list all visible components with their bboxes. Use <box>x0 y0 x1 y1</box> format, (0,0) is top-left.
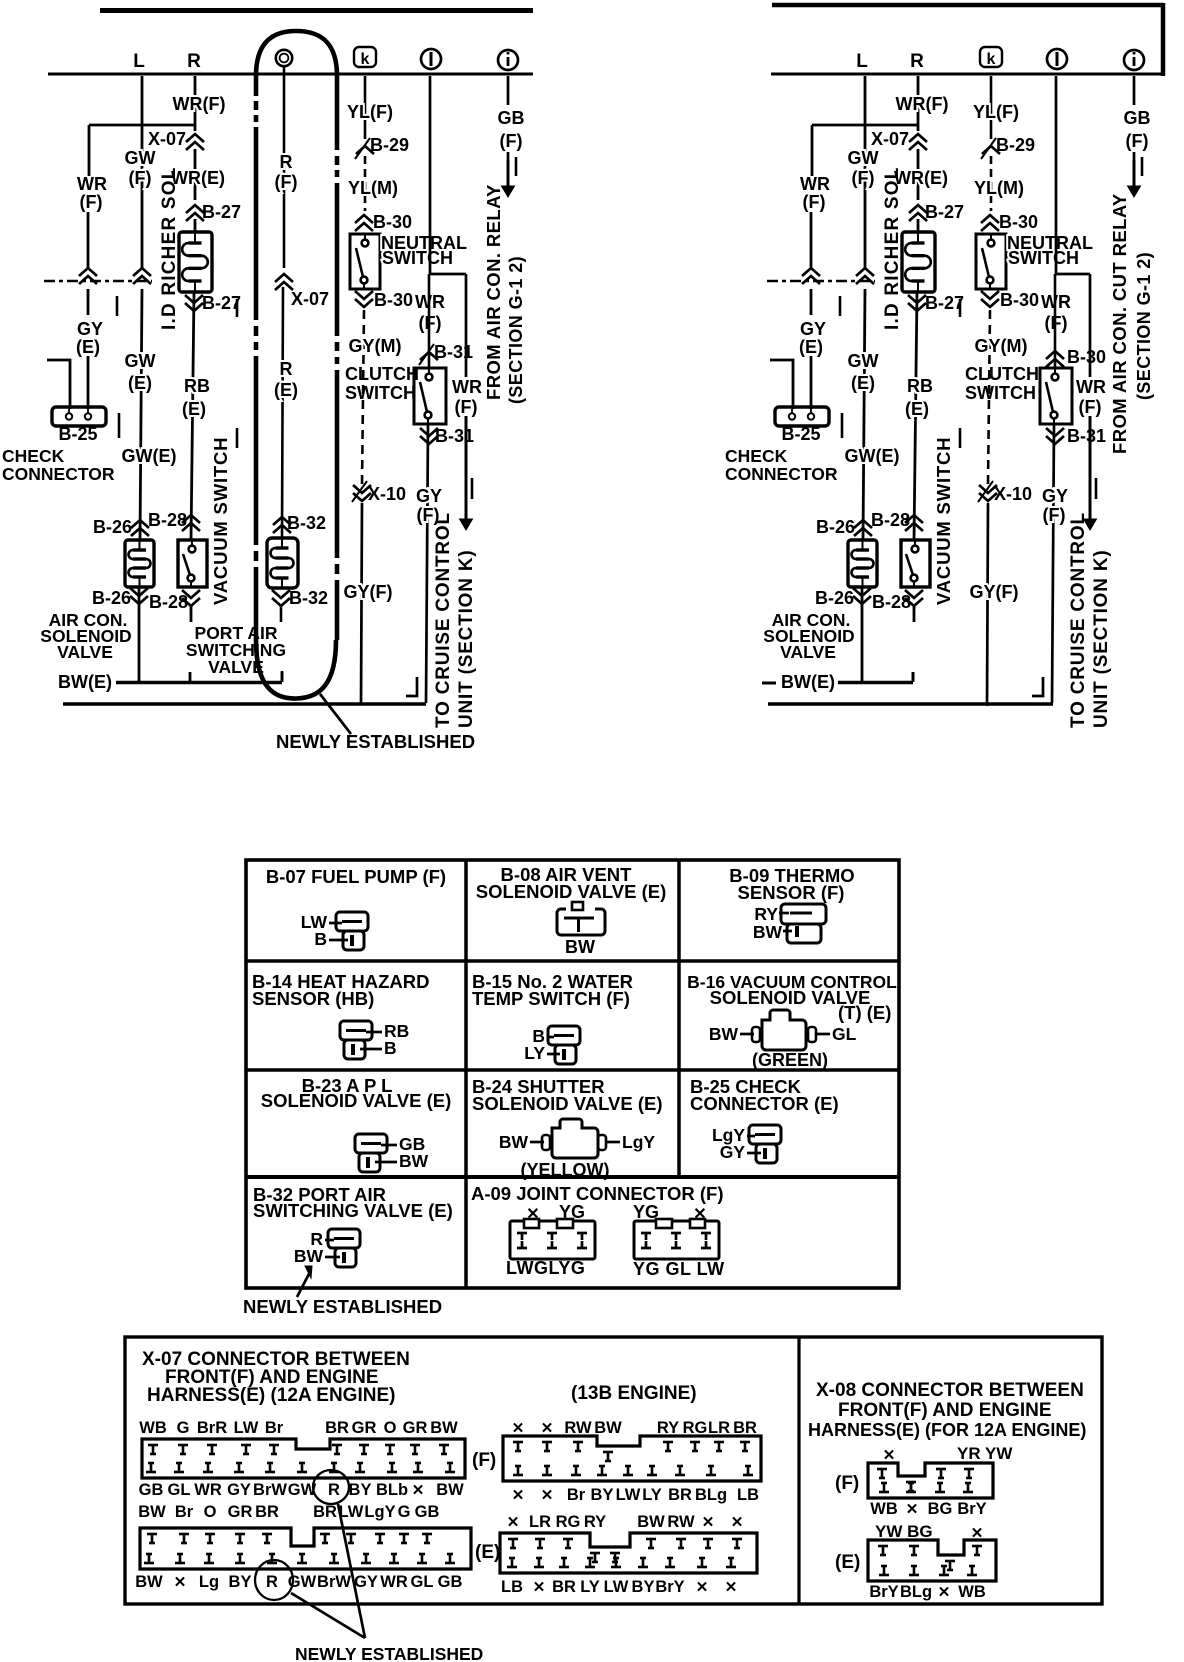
wire k dashed YL(M) (right) <box>990 156 993 211</box>
svg-text:(SECTION G-1 2): (SECTION G-1 2) <box>1134 252 1154 400</box>
svg-text:GY: GY <box>720 1142 746 1162</box>
wire l column bottom (left) <box>426 424 428 703</box>
wire l column to clutch (left) <box>428 274 431 368</box>
svg-text:(E): (E) <box>799 337 823 357</box>
wire L column bottom (right) <box>861 587 864 681</box>
svg-text:BLg: BLg <box>900 1583 932 1601</box>
svg-text:RG: RG <box>556 1513 581 1531</box>
svg-text:FROM AIR CON. RELAY: FROM AIR CON. RELAY <box>483 184 504 400</box>
svg-text:GY: GY <box>416 486 442 506</box>
svg-text:WB: WB <box>870 1500 898 1518</box>
svg-text:LW: LW <box>234 1419 259 1437</box>
connector chevron B-30 above neutral switch (right) <box>981 215 999 223</box>
svg-text:(F): (F) <box>80 192 103 212</box>
svg-text:LgY: LgY <box>364 1503 395 1521</box>
svg-text:GY(M): GY(M) <box>349 336 402 356</box>
svg-text:FRONT(F) AND ENGINE: FRONT(F) AND ENGINE <box>838 1400 1052 1421</box>
connector icon B-08 <box>557 909 605 935</box>
svg-text:SENSOR (F): SENSOR (F) <box>738 882 845 903</box>
connector chevron X-10 (right) <box>979 485 997 493</box>
pointer arrow to B-32 icon <box>297 1270 311 1297</box>
node k boxed (right) <box>980 47 1002 67</box>
harness tick mid (right) <box>959 299 962 317</box>
arrow to cruise control (left) <box>465 416 468 522</box>
svg-text:BrY: BrY <box>655 1578 684 1596</box>
connector chevron B-26 above solenoid (left) <box>131 520 149 528</box>
branch to WR wire (right) <box>1056 273 1090 276</box>
svg-text:(F): (F) <box>835 1473 859 1494</box>
connector chevron B-30 above neutral switch (left) <box>355 215 373 223</box>
label BW(E) (right) <box>762 682 776 685</box>
svg-text:✕: ✕ <box>533 1579 546 1596</box>
svg-text:B-30: B-30 <box>373 212 412 232</box>
wire WR branch down (right) <box>1089 274 1092 377</box>
svg-text:GY: GY <box>1042 486 1068 506</box>
connector chevron B-31 below clutch (left) <box>420 428 438 436</box>
wire WR column lower (left) <box>87 289 90 315</box>
svg-text:BG: BG <box>928 1500 953 1518</box>
wire k column upper (left) <box>364 76 367 139</box>
svg-text:LY: LY <box>524 1043 545 1063</box>
svg-text:LB: LB <box>501 1578 523 1596</box>
svg-text:GY: GY <box>800 319 826 339</box>
svg-text:RY: RY <box>657 1419 679 1437</box>
check connector left lead (left) <box>47 360 70 409</box>
svg-text:LB: LB <box>737 1486 759 1504</box>
wire l column bottom (right) <box>1052 424 1054 703</box>
svg-text:(GREEN): (GREEN) <box>752 1050 828 1070</box>
connector chevron B-32 below valve <box>272 590 290 598</box>
svg-text:BR: BR <box>325 1419 349 1437</box>
svg-text:(F): (F) <box>129 168 152 188</box>
svg-text:WR(F): WR(F) <box>896 94 949 114</box>
connector chevron on WR wire at cut (left) <box>79 268 97 276</box>
svg-text:YR YW: YR YW <box>957 1444 1013 1463</box>
svg-text:X-07: X-07 <box>291 289 329 309</box>
svg-text:Lg: Lg <box>199 1573 219 1591</box>
svg-text:GB: GB <box>415 1503 440 1521</box>
svg-text:GW: GW <box>125 351 156 371</box>
svg-text:B-30: B-30 <box>999 212 1038 232</box>
svg-text:NEWLY ESTABLISHED: NEWLY ESTABLISHED <box>276 731 475 752</box>
svg-text:BW: BW <box>709 1024 739 1044</box>
connector chevron B-29 (left) <box>356 146 374 154</box>
svg-text:B-27: B-27 <box>925 293 964 313</box>
svg-text:L: L <box>133 51 145 72</box>
svg-text:UNIT (SECTION K): UNIT (SECTION K) <box>1091 549 1112 728</box>
svg-text:GY: GY <box>77 319 103 339</box>
wire R column (left) <box>194 149 197 200</box>
svg-text:BW(E): BW(E) <box>58 672 112 692</box>
svg-text:LY: LY <box>642 1486 662 1504</box>
svg-text:RW: RW <box>667 1513 695 1531</box>
svg-text:Br: Br <box>567 1486 586 1504</box>
svg-text:TEMP SWITCH (F): TEMP SWITCH (F) <box>472 988 630 1009</box>
svg-text:BY: BY <box>229 1573 252 1591</box>
svg-text:B-07 FUEL PUMP (F): B-07 FUEL PUMP (F) <box>266 866 446 887</box>
svg-text:YL(F): YL(F) <box>347 102 393 122</box>
wire L column upper (right) <box>864 76 867 270</box>
svg-text:RG: RG <box>683 1419 708 1437</box>
svg-text:LR: LR <box>708 1419 730 1437</box>
svg-text:X-07: X-07 <box>871 129 909 149</box>
svg-text:BW: BW <box>499 1132 529 1152</box>
wire L column upper (left) <box>141 76 144 270</box>
X-07 13B (F) connector body <box>503 1436 761 1481</box>
newly established circles on R pins <box>313 1470 349 1504</box>
svg-text:VALVE: VALVE <box>780 642 836 662</box>
svg-text:CHECK: CHECK <box>725 446 788 466</box>
svg-text:BLg: BLg <box>695 1486 727 1504</box>
connector chevron X-07 on e wire <box>275 274 293 282</box>
wire WR branch down (left) <box>465 274 468 377</box>
svg-text:BW: BW <box>430 1419 458 1437</box>
svg-text:BW: BW <box>637 1513 665 1531</box>
X-07 12A (F) connector body <box>142 1439 465 1478</box>
svg-text:WR(F): WR(F) <box>173 94 226 114</box>
svg-text:B-30: B-30 <box>1000 290 1039 310</box>
svg-text:WR: WR <box>1076 377 1106 397</box>
svg-text:BW: BW <box>294 1246 324 1266</box>
svg-text:(F): (F) <box>500 131 523 151</box>
neutral switch box (right) <box>976 234 1006 289</box>
svg-text:FROM AIR CON. CUT RELAY: FROM AIR CON. CUT RELAY <box>1109 193 1130 454</box>
harness tick near GB arrow (left) <box>515 157 518 176</box>
svg-text:BY: BY <box>349 1481 372 1499</box>
svg-text:SWITCH: SWITCH <box>382 248 453 268</box>
connector chevron B-30 above clutch (right) <box>1046 351 1064 359</box>
X-08 (F) connector body <box>868 1463 993 1498</box>
svg-text:(E): (E) <box>905 399 929 419</box>
svg-text:Br: Br <box>175 1503 194 1521</box>
svg-text:SOLENOID VALVE (E): SOLENOID VALVE (E) <box>472 1093 663 1114</box>
svg-text:(E): (E) <box>835 1552 860 1573</box>
svg-text:B-26: B-26 <box>93 517 132 537</box>
bottom bus line (right) <box>768 702 1053 706</box>
svg-text:HARNESS(E) (12A ENGINE): HARNESS(E) (12A ENGINE) <box>147 1385 395 1406</box>
component table border <box>246 860 899 1288</box>
arrow to cruise control (right) <box>1089 416 1092 522</box>
svg-text:YG GL LW: YG GL LW <box>633 1259 725 1279</box>
connector chevron B-26 below solenoid (right) <box>853 588 871 596</box>
svg-text:B-28: B-28 <box>148 510 187 530</box>
wire WR column mid (left) <box>87 212 90 270</box>
svg-text:BR: BR <box>733 1419 757 1437</box>
svg-text:SWITCHING VALVE (E): SWITCHING VALVE (E) <box>253 1200 453 1221</box>
svg-text:CHECK: CHECK <box>2 446 65 466</box>
wire k GY(F) solid (left) <box>361 503 362 703</box>
svg-text:WR: WR <box>194 1481 222 1499</box>
svg-text:✕: ✕ <box>731 1514 744 1531</box>
X-07 12A (E) connector body <box>140 1528 471 1569</box>
vacuum switch box (right) <box>901 540 930 587</box>
svg-text:R: R <box>280 359 293 379</box>
svg-text:SWITCH: SWITCH <box>965 383 1036 403</box>
svg-text:(SECTION G-1 2): (SECTION G-1 2) <box>506 256 526 404</box>
svg-text:B-28: B-28 <box>871 510 910 530</box>
svg-text:GY: GY <box>227 1481 251 1499</box>
wire below vacuum switch (left) <box>190 606 193 622</box>
svg-text:CONNECTOR: CONNECTOR <box>2 464 115 484</box>
svg-text:YL(M): YL(M) <box>974 178 1024 198</box>
svg-text:(E): (E) <box>475 1542 500 1563</box>
svg-text:(E): (E) <box>851 373 875 393</box>
svg-text:I.D RICHER SOL: I.D RICHER SOL <box>159 166 180 330</box>
svg-text:R: R <box>910 51 924 72</box>
branch to WR wire (left) <box>430 273 466 276</box>
connector chevron B-26 above solenoid (right) <box>854 520 872 528</box>
wire e column mid <box>282 287 283 538</box>
svg-text:B-31: B-31 <box>435 426 474 446</box>
svg-text:X-07: X-07 <box>148 129 186 149</box>
check connector left lead (right) <box>770 360 793 409</box>
svg-text:B-27: B-27 <box>202 202 241 222</box>
connector chevron X-10 (left) <box>353 485 371 493</box>
wire l column upper (right) <box>1055 76 1058 274</box>
connector chevron B-28 above vacuum switch (left) <box>182 515 200 523</box>
svg-text:LgY: LgY <box>622 1132 655 1152</box>
svg-text:WB: WB <box>958 1583 986 1601</box>
wire l column upper (left) <box>429 76 432 274</box>
svg-text:B-26: B-26 <box>92 588 131 608</box>
svg-text:✕: ✕ <box>412 1482 425 1499</box>
connector chevron on L wire at cut (left) <box>133 268 151 276</box>
svg-text:YL(M): YL(M) <box>348 178 398 198</box>
svg-text:BrR: BrR <box>197 1419 227 1437</box>
harness tick marks (left) <box>116 296 119 316</box>
svg-text:G: G <box>398 1503 411 1521</box>
svg-text:B: B <box>314 929 327 949</box>
svg-text:BR: BR <box>313 1503 337 1521</box>
svg-text:X-08 CONNECTOR BETWEEN: X-08 CONNECTOR BETWEEN <box>816 1380 1084 1401</box>
svg-text:(F): (F) <box>1079 397 1102 417</box>
svg-text:UNIT (SECTION K): UNIT (SECTION K) <box>456 549 477 728</box>
svg-text:BrW: BrW <box>317 1573 351 1591</box>
svg-text:B-25: B-25 <box>781 424 820 444</box>
svg-text:✕: ✕ <box>906 1501 919 1518</box>
connector chevron B-30 below neutral switch (left) <box>355 291 373 299</box>
svg-text:WR: WR <box>77 174 107 194</box>
svg-text:WR: WR <box>452 377 482 397</box>
wire R column mid (right) <box>914 292 917 540</box>
svg-text:NEWLY ESTABLISHED: NEWLY ESTABLISHED <box>295 1644 483 1662</box>
connector chevron on L wire at cut (right) <box>856 268 874 276</box>
svg-text:(YELLOW): (YELLOW) <box>521 1160 610 1180</box>
svg-text:VALVE: VALVE <box>208 657 264 677</box>
svg-text:WR: WR <box>380 1573 408 1591</box>
svg-text:GW: GW <box>848 351 879 371</box>
svg-text:BrY: BrY <box>957 1500 986 1518</box>
svg-text:B-32: B-32 <box>287 513 326 533</box>
svg-text:CLUTCH: CLUTCH <box>965 364 1039 384</box>
svg-text:LW: LW <box>339 1503 364 1521</box>
svg-text:BR: BR <box>255 1503 279 1521</box>
svg-text:GW: GW <box>125 148 156 168</box>
svg-text:GB: GB <box>498 108 525 128</box>
pointer lines to newly established <box>338 1504 365 1638</box>
svg-text:X-10: X-10 <box>994 484 1032 504</box>
svg-text:R: R <box>328 1481 340 1499</box>
svg-text:B-32: B-32 <box>289 588 328 608</box>
svg-text:WB: WB <box>139 1419 167 1437</box>
wire R column upper (right) <box>917 76 920 131</box>
svg-text:GW: GW <box>848 148 879 168</box>
svg-text:(F): (F) <box>803 192 826 212</box>
arrow from air con relay (right) <box>1133 152 1136 160</box>
right panel top border line <box>772 3 1163 8</box>
svg-text:(E): (E) <box>274 380 298 400</box>
neutral switch box (left) <box>350 234 380 289</box>
node l circled (right) <box>1047 49 1067 69</box>
svg-text:B-29: B-29 <box>370 135 409 155</box>
svg-text:VALVE: VALVE <box>57 642 113 662</box>
svg-text:GY(M): GY(M) <box>975 336 1028 356</box>
harness tick near arrow (left) <box>471 478 474 499</box>
svg-text:B-25: B-25 <box>58 424 97 444</box>
svg-text:B-28: B-28 <box>149 592 188 612</box>
svg-text:BW: BW <box>753 922 783 942</box>
svg-text:I.D RICHER SOL: I.D RICHER SOL <box>882 166 903 330</box>
wire i column (right) <box>1133 76 1136 105</box>
harness tick mid (left) <box>236 299 239 317</box>
svg-text:B-30: B-30 <box>374 290 413 310</box>
connector chevron B-28 below vacuum switch (left) <box>182 590 200 598</box>
svg-text:B-28: B-28 <box>872 592 911 612</box>
svg-text:k: k <box>987 51 996 68</box>
svg-text:✕: ✕ <box>725 1579 738 1596</box>
svg-text:BW: BW <box>399 1151 429 1171</box>
wire L column bottom (left) <box>138 587 141 681</box>
connector icon B-14 <box>340 1021 372 1040</box>
svg-text:GR: GR <box>403 1419 428 1437</box>
connector chevron B-27 lower (right) <box>908 295 926 303</box>
harness tick near GB arrow (right) <box>1141 157 1144 176</box>
wire BW(E) horizontal (left) <box>116 681 282 685</box>
svg-text:CONNECTOR (E): CONNECTOR (E) <box>690 1093 839 1114</box>
svg-text:CLUTCH: CLUTCH <box>345 364 419 384</box>
continuation bracket (right) <box>1032 677 1043 696</box>
svg-text:B-26: B-26 <box>816 517 855 537</box>
wire into I.D richer sol (right) <box>917 219 920 232</box>
svg-text:BY: BY <box>591 1486 614 1504</box>
wire BW(E) horizontal (right) <box>838 681 913 685</box>
svg-text:LW: LW <box>604 1578 629 1596</box>
svg-text:BW: BW <box>135 1573 163 1591</box>
svg-text:✕: ✕ <box>696 1579 709 1596</box>
svg-text:TO CRUISE CONTROL: TO CRUISE CONTROL <box>1068 512 1089 728</box>
wire WR column lower (right) <box>810 289 813 315</box>
connector chevron B-31 above clutch (left) <box>420 352 438 360</box>
node i circled (left) <box>498 50 518 70</box>
wire k dashed GY(M) (right) <box>988 310 990 484</box>
svg-text:B-27: B-27 <box>202 293 241 313</box>
svg-text:(E): (E) <box>76 337 100 357</box>
wire k dashed GY(M) (left) <box>362 310 364 484</box>
svg-text:CONNECTOR: CONNECTOR <box>725 464 838 484</box>
svg-text:SOLENOID VALVE (E): SOLENOID VALVE (E) <box>476 881 667 902</box>
svg-text:B-31: B-31 <box>1067 426 1106 446</box>
svg-text:VACUUM SWITCH: VACUUM SWITCH <box>210 437 231 605</box>
connector chevron B-27 upper (right) <box>909 205 927 213</box>
svg-text:SWITCH: SWITCH <box>345 383 416 403</box>
bottom bus line (left) <box>63 702 426 706</box>
svg-text:YL(F): YL(F) <box>973 102 1019 122</box>
connector chevron B-30 below neutral switch (right) <box>981 291 999 299</box>
wire i column (left) <box>507 76 510 105</box>
vacuum switch box (left) <box>178 540 207 587</box>
wire below vacuum switch (right) <box>913 606 916 622</box>
check connector B-25 (right) <box>775 407 829 426</box>
svg-text:RW: RW <box>564 1419 592 1437</box>
newly established pointer line <box>320 694 351 734</box>
svg-text:GW(E): GW(E) <box>122 446 177 466</box>
svg-text:✕: ✕ <box>512 1487 525 1504</box>
svg-text:(E): (E) <box>182 399 206 419</box>
node l circled (left) <box>421 49 441 69</box>
harness cut dash line (right) <box>767 280 875 283</box>
wire R column mid (left) <box>191 292 194 540</box>
svg-text:R: R <box>187 51 201 72</box>
svg-text:RY: RY <box>754 904 778 924</box>
wire R column (right) <box>917 149 920 200</box>
svg-text:SWITCH: SWITCH <box>1008 248 1079 268</box>
svg-text:BW: BW <box>138 1503 166 1521</box>
left panel bus line <box>48 73 533 76</box>
svg-text:NEWLY ESTABLISHED: NEWLY ESTABLISHED <box>243 1296 442 1317</box>
svg-text:(F): (F) <box>455 397 478 417</box>
air con solenoid valve coil box B-26 (left) <box>125 540 154 587</box>
svg-text:B-26: B-26 <box>815 588 854 608</box>
svg-text:L: L <box>856 51 868 72</box>
svg-text:GY(F): GY(F) <box>970 582 1019 602</box>
right panel bus line <box>771 73 1163 76</box>
port air switching valve box B-32 <box>267 538 298 588</box>
svg-text:O: O <box>384 1419 397 1437</box>
connector chevron B-26 below solenoid (left) <box>130 588 148 596</box>
check connector B-25 (left) <box>52 407 106 426</box>
svg-text:VACUUM SWITCH: VACUUM SWITCH <box>933 437 954 605</box>
svg-text:(F): (F) <box>852 168 875 188</box>
svg-text:BY: BY <box>632 1578 655 1596</box>
wire l column to clutch (right) <box>1054 274 1057 368</box>
node e circled (left) <box>276 50 292 66</box>
svg-text:HARNESS(E) (FOR 12A ENGINE): HARNESS(E) (FOR 12A ENGINE) <box>808 1420 1086 1440</box>
svg-text:WR: WR <box>800 174 830 194</box>
svg-text:BrW: BrW <box>253 1481 287 1499</box>
svg-text:A-09 JOINT CONNECTOR (F): A-09 JOINT CONNECTOR (F) <box>471 1183 724 1204</box>
svg-text:X-10: X-10 <box>368 484 406 504</box>
connector chevron B-27 upper (left) <box>186 205 204 213</box>
svg-text:YW BG: YW BG <box>875 1522 933 1541</box>
air con solenoid valve coil box B-26 (right) <box>848 540 877 587</box>
svg-text:SOLENOID VALVE (E): SOLENOID VALVE (E) <box>261 1090 452 1111</box>
harness tick near arrow (right) <box>1095 478 1098 499</box>
svg-text:✕: ✕ <box>702 1514 715 1531</box>
svg-text:LWGLYG: LWGLYG <box>506 1258 585 1278</box>
svg-text:RY: RY <box>584 1513 606 1531</box>
svg-text:RB: RB <box>184 376 210 396</box>
connector chevron B-28 below vacuum switch (right) <box>905 590 923 598</box>
connector chevron B-27 lower (left) <box>185 295 203 303</box>
svg-text:G: G <box>177 1419 190 1437</box>
newly established loop <box>256 31 337 76</box>
wire L column mid (left) <box>140 289 142 540</box>
svg-text:BLb: BLb <box>376 1481 408 1499</box>
svg-text:(F): (F) <box>1126 131 1149 151</box>
svg-text:✕: ✕ <box>541 1487 554 1504</box>
svg-text:✕: ✕ <box>507 1514 520 1531</box>
svg-text:GL: GL <box>168 1481 191 1499</box>
